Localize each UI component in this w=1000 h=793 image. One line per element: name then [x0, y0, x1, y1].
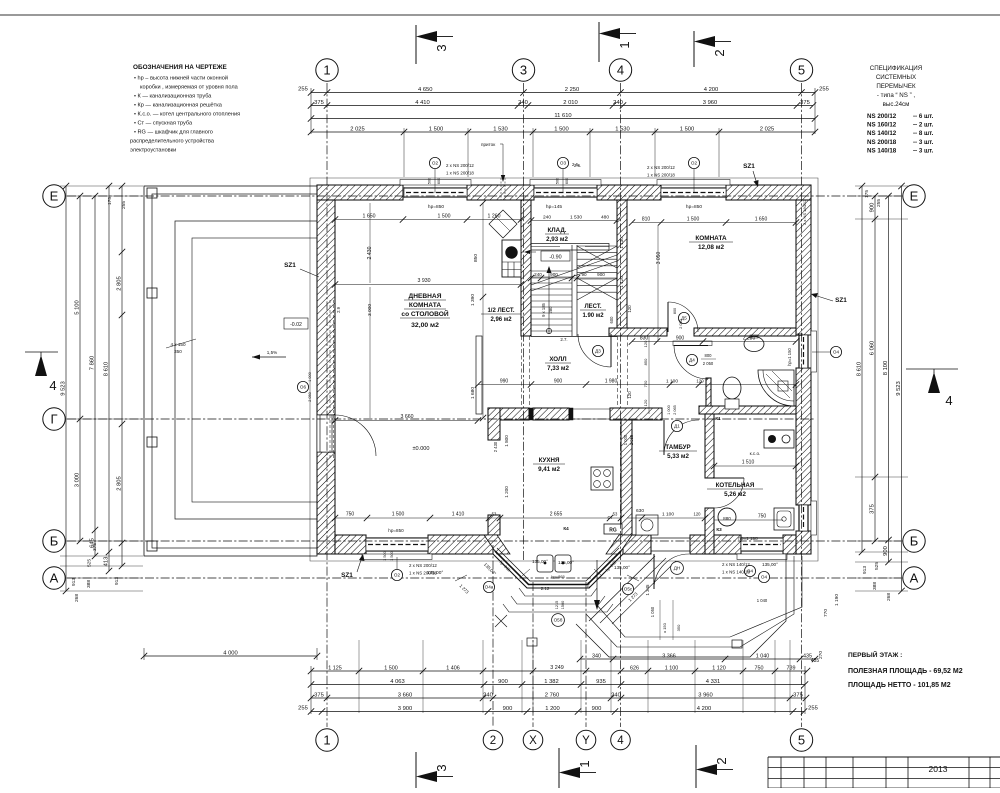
window right boiler [799, 505, 809, 531]
svg-text:1 500: 1 500 [554, 126, 569, 132]
svg-text:900: 900 [592, 706, 602, 712]
bay outer wall [493, 554, 623, 588]
kitchen sink right bowl [555, 555, 571, 572]
hall partition thin wall [476, 336, 482, 414]
door bubble D3 [592, 345, 603, 356]
corridor dashed wall lines [617, 336, 619, 408]
svg-text:hp=850: hp=850 [428, 204, 444, 210]
axis bubble 1 bottom [316, 729, 338, 751]
svg-text:1500: 1500 [561, 601, 565, 609]
hall dim row [478, 384, 796, 386]
svg-text:1 040: 1 040 [757, 598, 768, 603]
svg-text:-0.02: -0.02 [290, 322, 302, 328]
svg-text:4 650: 4 650 [418, 87, 433, 93]
svg-text:ХОЛЛ: ХОЛЛ [549, 356, 566, 363]
svg-text:626: 626 [630, 665, 639, 671]
svg-text:1: 1 [577, 760, 592, 767]
pantry south thin wall [531, 244, 609, 251]
svg-text:240: 240 [613, 100, 623, 106]
svg-text:2 025: 2 025 [760, 126, 775, 132]
svg-text:388: 388 [872, 582, 878, 590]
right dim col 4 [901, 186, 903, 591]
axis bubble G left [43, 408, 65, 430]
svg-text:240: 240 [534, 272, 542, 277]
svg-text:280: 280 [548, 306, 553, 314]
svg-text:RG: RG [609, 528, 617, 534]
svg-text:900: 900 [883, 546, 889, 556]
hall north wall east part [694, 328, 796, 336]
svg-text:375: 375 [869, 504, 875, 514]
svg-text:ТАМБУР: ТАМБУР [665, 444, 690, 451]
svg-text:А: А [50, 571, 59, 586]
stove kitchen [591, 467, 613, 490]
svg-text:1 680: 1 680 [470, 387, 476, 399]
vent diamond [489, 210, 517, 238]
wall bottom-left segment 1 [335, 535, 366, 554]
svg-text:9 523: 9 523 [60, 381, 66, 396]
axis line Y bottom [585, 582, 587, 727]
svg-text:480: 480 [601, 215, 609, 221]
entrance door opening [651, 537, 690, 539]
svg-text:Д3: Д3 [595, 349, 601, 354]
wall bottom-right segment 1 [623, 535, 651, 554]
svg-text:со СТОЛОВОЙ: со СТОЛОВОЙ [401, 309, 448, 318]
stair bottom edge line [531, 336, 617, 338]
svg-text:NS 200/12: NS 200/12 [867, 113, 897, 120]
svg-text:1: 1 [617, 41, 632, 48]
stair middle rail [571, 245, 573, 336]
svg-text:2: 2 [490, 735, 496, 747]
axis bubble A left [43, 567, 65, 589]
svg-text:hp=1 150: hp=1 150 [738, 536, 758, 541]
kitchen west wall lower [488, 515, 500, 535]
terrace inner edge [192, 238, 317, 502]
svg-text:выс.24см: выс.24см [883, 101, 910, 108]
wall top segment 3 [597, 185, 661, 200]
title block [768, 756, 1000, 758]
svg-text:2 655: 2 655 [550, 512, 563, 518]
svg-text:Б: Б [50, 534, 59, 549]
door bubble D4 [686, 354, 697, 365]
svg-text:53: 53 [613, 512, 618, 517]
living left vertical note [329, 300, 331, 460]
svg-text:500: 500 [428, 178, 432, 184]
svg-text:ДНЕВНАЯ: ДНЕВНАЯ [409, 293, 442, 300]
svg-text:NS 200/18: NS 200/18 [867, 139, 897, 146]
terrace bottom dim [144, 655, 317, 657]
door D4 bathroom header [673, 341, 712, 346]
svg-text:1 500: 1 500 [680, 126, 695, 132]
svg-text:850: 850 [473, 254, 479, 262]
boiler tank [718, 508, 736, 526]
right dim col 2 [874, 196, 876, 541]
svg-text:3 660: 3 660 [401, 414, 414, 420]
svg-text:135,00°: 135,00° [614, 565, 630, 570]
svg-text:255: 255 [298, 706, 308, 712]
svg-text:900: 900 [503, 706, 513, 712]
svg-text:120: 120 [627, 391, 632, 399]
left dim col 2 [79, 196, 81, 541]
section mark 1 top [598, 22, 600, 62]
svg-text:2: 2 [712, 49, 727, 56]
svg-text:X: X [529, 735, 537, 747]
svg-text:913: 913 [71, 578, 77, 586]
svg-text:5: 5 [798, 733, 805, 748]
svg-text:2,93 м2: 2,93 м2 [546, 236, 568, 243]
axis bubble A right [903, 567, 925, 589]
axis bubble 5 top [790, 59, 812, 81]
porch slope arrow [596, 560, 598, 605]
bottom dim row A [311, 670, 807, 672]
right dim col 3 [888, 196, 890, 562]
wall top segment 4 [726, 185, 811, 200]
svg-text:900: 900 [676, 336, 685, 342]
svg-text:3: 3 [434, 44, 449, 51]
svg-text:120: 120 [694, 512, 702, 517]
left dim col 3 [94, 196, 96, 556]
svg-text:-- 8 шт.: -- 8 шт. [913, 130, 934, 137]
window O3 top pantry [534, 188, 597, 198]
svg-text:750: 750 [755, 665, 764, 671]
stair walk line [548, 271, 550, 334]
svg-text:СПЕЦИФИКАЦИЯ: СПЕЦИФИКАЦИЯ [870, 65, 922, 72]
svg-text:9 x 185: 9 x 185 [541, 302, 546, 316]
terrace level mark [284, 318, 308, 329]
svg-text:Е: Е [910, 189, 919, 204]
living top dim row [335, 219, 521, 221]
svg-text:3 900: 3 900 [398, 706, 413, 712]
svg-text:1 980: 1 980 [605, 379, 618, 385]
svg-text:6 060: 6 060 [869, 341, 875, 356]
svg-text:1,5%: 1,5% [267, 350, 277, 355]
svg-text:7,33 м2: 7,33 м2 [547, 365, 569, 372]
porch post 1 [527, 638, 537, 646]
bedroom top dim row [632, 222, 796, 224]
svg-text:1 500: 1 500 [383, 551, 387, 561]
wall top segment 2 [467, 185, 534, 200]
svg-text:4: 4 [617, 63, 624, 78]
svg-text:1215: 1215 [555, 601, 559, 609]
axis bubble E right [903, 185, 925, 207]
svg-text:приток: приток [481, 142, 496, 147]
svg-text:375: 375 [92, 543, 98, 551]
svg-text:135,00°: 135,00° [532, 559, 548, 564]
porch step cross mark [495, 615, 507, 627]
terrace door opening [317, 415, 335, 452]
svg-text:2.6.: 2.6. [572, 162, 579, 167]
axis line 1 [326, 83, 328, 727]
axis bubble 3 top [512, 59, 534, 81]
svg-text:5,33 м2: 5,33 м2 [667, 453, 689, 460]
tambour dim row [627, 517, 705, 519]
svg-text:SZ1: SZ1 [341, 572, 353, 579]
svg-text:-- 6 шт.: -- 6 шт. [913, 113, 934, 120]
boiler west wall lower [705, 508, 714, 554]
svg-text:175: 175 [864, 190, 870, 198]
bottom extension verticals [358, 640, 360, 713]
window O2 top living [404, 188, 467, 198]
svg-text:135,00°: 135,00° [762, 562, 778, 567]
living bottom dim row [335, 420, 478, 422]
svg-text:ПЕРЕМЫЧЕК: ПЕРЕМЫЧЕК [876, 83, 916, 90]
porch outline 2 [586, 556, 794, 647]
svg-text:90: 90 [581, 272, 587, 277]
porch edge diagonal 3 [612, 561, 676, 624]
svg-text:750: 750 [346, 512, 355, 518]
terrace posts [147, 188, 157, 198]
svg-text:268: 268 [886, 593, 892, 601]
svg-text:750: 750 [758, 514, 767, 520]
svg-text:4 331: 4 331 [706, 679, 721, 685]
window top bedroom [661, 188, 726, 198]
svg-text:КОМНАТА: КОМНАТА [695, 235, 727, 242]
svg-text:1 050: 1 050 [650, 606, 655, 617]
svg-text:900: 900 [597, 272, 605, 277]
svg-text:1 120: 1 120 [619, 276, 624, 288]
axis line 2 bottom [492, 545, 494, 727]
porch edge diagonal 2 [600, 558, 666, 623]
top dim row 1 [311, 92, 815, 94]
axis bubble 4 top [609, 59, 631, 81]
svg-text:КЛАД.: КЛАД. [548, 227, 567, 234]
stair flight B treads [577, 245, 617, 247]
axis bubble B left [43, 530, 65, 552]
svg-text:8 100: 8 100 [883, 361, 889, 376]
porch steps below bay [519, 588, 597, 596]
svg-text:240: 240 [611, 692, 621, 698]
svg-text:- типа “ NS ” ,: - типа “ NS ” , [877, 92, 915, 99]
door D5 bedroom [667, 302, 669, 332]
left dim col 1 [65, 186, 67, 591]
svg-text:1 100: 1 100 [665, 665, 679, 671]
svg-text:СИСТЕМНЫХ: СИСТЕМНЫХ [876, 74, 916, 81]
svg-text:Д4: Д4 [689, 358, 695, 363]
svg-text:1 040: 1 040 [756, 653, 770, 659]
svg-text:2 050: 2 050 [308, 392, 312, 402]
kitchen north wall pier 1 [529, 408, 533, 420]
svg-text:3 930: 3 930 [418, 278, 431, 284]
svg-text:2 x NS 200/12: 2 x NS 200/12 [409, 563, 437, 568]
svg-text:2 025: 2 025 [350, 126, 365, 132]
door bubble D1 [671, 420, 682, 431]
svg-text:О2: О2 [691, 161, 698, 166]
bubble O3 top [557, 157, 568, 168]
svg-text:900: 900 [498, 679, 508, 685]
svg-text:1 000: 1 000 [623, 434, 628, 445]
svg-text:5 100: 5 100 [74, 300, 80, 315]
section mark 3 bottom [415, 752, 417, 788]
svg-text:4 063: 4 063 [390, 679, 405, 685]
chimney block [502, 240, 521, 277]
svg-text:135,00°: 135,00° [427, 570, 444, 576]
axis bubble E left [43, 185, 65, 207]
svg-text:2 050: 2 050 [679, 319, 683, 329]
terrace deck edge [175, 221, 317, 519]
svg-text:электроустановки: электроустановки [130, 148, 176, 154]
porch outline 1 [576, 554, 786, 657]
svg-text:-- 3 шт.: -- 3 шт. [913, 139, 934, 146]
bath door pier [706, 378, 711, 406]
bubble O2 top [429, 157, 440, 168]
door bubble DN [671, 562, 684, 575]
axis bubble B right [903, 530, 925, 552]
door K3 boiler [714, 477, 744, 479]
svg-text:• К — канализационная труба: • К — канализационная труба [134, 94, 212, 100]
svg-text:4 410: 4 410 [415, 100, 430, 106]
svg-text:А: А [910, 571, 919, 586]
svg-text:SZ1: SZ1 [284, 262, 296, 269]
porch outline 3 [596, 556, 802, 637]
svg-text:1 650: 1 650 [363, 214, 376, 220]
svg-text:hp=850: hp=850 [388, 528, 404, 533]
window right bath [799, 335, 809, 368]
svg-text:ЛЕСТ.: ЛЕСТ. [584, 304, 601, 310]
stair dim row [528, 275, 534, 281]
title block inner ticks [768, 787, 1000, 789]
axis bubble 4 bottom [611, 730, 631, 750]
svg-text:2: 2 [714, 757, 729, 764]
axis line A horizontal [67, 577, 901, 579]
svg-text:1 130: 1 130 [619, 237, 624, 249]
svg-text:32,00 м2: 32,00 м2 [411, 322, 439, 329]
svg-text:8 610: 8 610 [856, 362, 862, 377]
axis bubble Y bottom [576, 730, 596, 750]
top dim extension lines [310, 88, 312, 134]
bottom dim row C [311, 697, 806, 699]
svg-text:255: 255 [298, 87, 308, 93]
svg-text:5,26 м2: 5,26 м2 [724, 491, 746, 498]
svg-text:9 523: 9 523 [896, 381, 902, 396]
kitchen north wall east [610, 408, 662, 420]
svg-text:К2: К2 [797, 332, 803, 337]
svg-text:1.90 м2: 1.90 м2 [582, 313, 604, 319]
svg-text:1 500: 1 500 [687, 217, 700, 223]
wall top segment 1 [317, 185, 403, 200]
svg-text:3 960: 3 960 [698, 692, 713, 698]
svg-text:1 260: 1 260 [488, 214, 501, 220]
bubble O4 right wall [830, 346, 841, 357]
svg-text:2 010: 2 010 [563, 100, 578, 106]
axis bubble X bottom [523, 730, 543, 750]
svg-text:2 x NS 200/12: 2 x NS 200/12 [446, 163, 474, 168]
svg-text:600: 600 [609, 316, 614, 324]
svg-text:О4: О4 [761, 575, 768, 580]
boiler stove [764, 430, 794, 448]
svg-text:к.с.о.: к.с.о. [750, 451, 761, 456]
svg-text:525: 525 [87, 559, 93, 567]
svg-text:1 530: 1 530 [493, 126, 508, 132]
svg-text:120: 120 [643, 399, 648, 406]
svg-text:2 230: 2 230 [743, 336, 756, 342]
boiler dim rows [714, 465, 796, 467]
bay small arrows [455, 575, 467, 581]
svg-text:350: 350 [174, 349, 182, 354]
left dim col 4 [108, 186, 110, 571]
svg-text:1 410: 1 410 [452, 512, 465, 518]
toilet [723, 377, 741, 399]
left chain horizontals [60, 185, 143, 187]
svg-text:4: 4 [945, 393, 952, 408]
svg-text:270: 270 [818, 651, 824, 659]
wall right segment 1 [796, 200, 811, 335]
svg-text:2%: 2% [586, 582, 591, 589]
wall left segment 2 [317, 452, 335, 554]
porch edge diagonal [589, 556, 655, 621]
svg-text:413: 413 [103, 557, 109, 567]
svg-text:240: 240 [483, 692, 493, 698]
bedroom bottom dim row [632, 341, 796, 343]
svg-text:• Кр — канализационная решётка: • Кр — канализационная решётка [134, 103, 223, 109]
svg-text:1 000: 1 000 [667, 405, 671, 415]
svg-text:4 200: 4 200 [697, 706, 712, 712]
svg-text:990: 990 [500, 379, 509, 385]
svg-text:739: 739 [787, 665, 796, 671]
bottom dim mini row [580, 658, 815, 660]
north arrow right [906, 368, 958, 370]
section mark 2 bottom [695, 745, 697, 788]
svg-text:630: 630 [636, 508, 644, 514]
svg-text:О4а: О4а [485, 585, 494, 590]
svg-text:1 650: 1 650 [755, 217, 768, 223]
svg-text:800: 800 [673, 308, 677, 314]
svg-text:• hp – высота нижней части око: • hp – высота нижней части оконной [134, 75, 228, 82]
left dim col 5 [121, 186, 123, 566]
svg-text:О6: О6 [300, 385, 307, 390]
door D3 stairs [610, 334, 612, 367]
eaves outline [310, 178, 818, 561]
svg-text:5: 5 [798, 63, 805, 78]
svg-text:913: 913 [862, 566, 868, 574]
svg-text:810: 810 [642, 217, 651, 223]
svg-text:350: 350 [676, 624, 681, 631]
svg-text:600: 600 [437, 178, 441, 184]
svg-text:КУХНЯ: КУХНЯ [539, 457, 560, 464]
top dim row 2 [311, 105, 813, 107]
svg-text:900: 900 [554, 379, 563, 385]
kitchen dim row [335, 517, 621, 519]
stair cut line [531, 255, 617, 285]
svg-text:1 500: 1 500 [438, 214, 451, 220]
axis line 5 [801, 83, 803, 727]
svg-text:NS 140/18: NS 140/18 [867, 147, 897, 154]
svg-text:К4: К4 [563, 526, 569, 531]
svg-text:525: 525 [874, 562, 880, 570]
svg-text:-- 2 шт.: -- 2 шт. [913, 122, 934, 129]
svg-text:1 510: 1 510 [742, 460, 755, 466]
sheet border line [0, 14, 1000, 16]
svg-text:8 610: 8 610 [103, 362, 109, 377]
terrace second edge [152, 194, 317, 548]
bay glazing lines [495, 551, 621, 585]
axis line G horizontal [67, 418, 815, 420]
svg-text:770: 770 [823, 609, 829, 617]
svg-text:О5б: О5б [554, 618, 563, 623]
kitchen west wall upper [488, 408, 500, 440]
svg-text:Б: Б [910, 534, 919, 549]
bay corner pier left [484, 535, 510, 554]
svg-text:hp=850: hp=850 [686, 204, 702, 210]
svg-text:ДН: ДН [674, 566, 680, 571]
porch vert dim lines [659, 600, 661, 640]
svg-text:2.7.: 2.7. [560, 337, 567, 342]
axis line B horizontal [67, 540, 901, 542]
svg-text:ОБОЗНАЧЕНИЯ НА ЧЕРТЕЖЕ: ОБОЗНАЧЕНИЯ НА ЧЕРТЕЖЕ [133, 64, 227, 71]
porch post 2 [732, 640, 742, 648]
svg-text:2 430: 2 430 [493, 441, 498, 452]
svg-text:1 500: 1 500 [384, 665, 398, 671]
washing machine tambour [636, 515, 658, 535]
svg-text:1 500: 1 500 [390, 551, 394, 561]
